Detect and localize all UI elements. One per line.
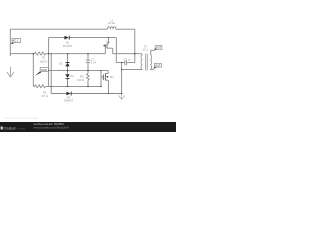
svg-text:D3: D3 (70, 74, 74, 78)
svg-text:1N4007: 1N4007 (63, 44, 73, 48)
svg-text:10 uH: 10 uH (108, 21, 115, 25)
svg-text:0.5 Ω: 0.5 Ω (41, 94, 48, 98)
svg-text:D2: D2 (59, 61, 63, 65)
svg-text:M2: M2 (106, 40, 110, 44)
svg-text:GND: GND (41, 69, 48, 72)
svg-text:D1: D1 (66, 40, 70, 44)
svg-text:R2: R2 (43, 90, 47, 94)
svg-text:M1: M1 (110, 75, 114, 79)
svg-text:C2 1n: C2 1n (124, 58, 132, 62)
svg-text:100 Ω: 100 Ω (77, 78, 84, 82)
svg-text:1 uF: 1 uF (91, 61, 97, 65)
svg-text:1N4007: 1N4007 (64, 99, 74, 103)
svg-text:CircuitLab: CircuitLab (3, 127, 15, 131)
svg-text:R3: R3 (80, 74, 84, 78)
svg-text:www.circuitlab.com/c/6ke2tp9y4: www.circuitlab.com/c/6ke2tp9y4/ (33, 125, 69, 129)
svg-text:R1: R1 (42, 55, 46, 59)
svg-text:AC 1: AC 1 (13, 40, 19, 43)
svg-text:10:1: 10:1 (143, 48, 149, 52)
svg-text:™ electronics: ™ electronics (17, 127, 26, 130)
svg-text:OUT: OUT (155, 65, 161, 68)
svg-text:600 Ω: 600 Ω (40, 59, 47, 63)
svg-text:OUT: OUT (156, 47, 162, 50)
svg-text:Generated by CircuitLab: Generated by CircuitLab (5, 116, 39, 120)
